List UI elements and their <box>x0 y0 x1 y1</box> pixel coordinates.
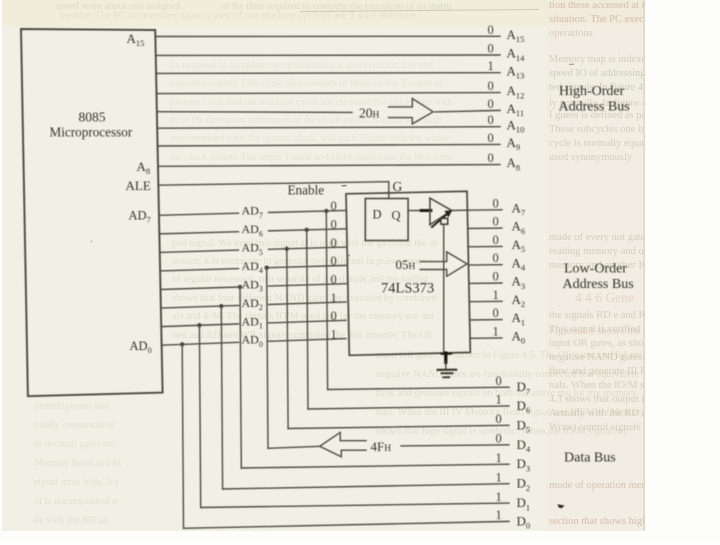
svg-text:1: 1 <box>496 471 502 485</box>
svg-text:ol is accomplished u: ol is accomplished u <box>34 496 117 507</box>
svg-text:0: 0 <box>493 215 499 229</box>
svg-text:1: 1 <box>331 327 337 341</box>
wire OE to ground <box>442 224 452 369</box>
svg-text:8085: 8085 <box>79 110 106 125</box>
wire A10, bit value 0 <box>157 113 524 134</box>
wire D7, bit value 0 <box>328 374 531 396</box>
wire AD7 from 8085 to latch, bit value 0 <box>159 199 346 220</box>
svg-text:0: 0 <box>331 254 337 268</box>
flow arrow 20H (high-order bus value) <box>389 99 434 124</box>
svg-text:0: 0 <box>496 412 502 426</box>
svg-text:used synonymously: used synonymously <box>549 152 633 163</box>
svg-text:0: 0 <box>488 97 494 111</box>
wire AD2 from 8085 to latch, bit value 1 <box>161 291 346 312</box>
svg-text:signal most high. It i: signal most high. It i <box>34 477 118 488</box>
junction node AD3 <box>238 285 242 289</box>
wire D1, bit value 1 <box>201 490 530 512</box>
svg-text:0: 0 <box>488 131 494 145</box>
bus label: Data Bus <box>564 451 616 466</box>
svg-text:in decimal gates mo: in decimal gates mo <box>34 439 116 450</box>
tri-state output buffer <box>430 198 452 225</box>
svg-text:1: 1 <box>331 291 337 305</box>
svg-text:device, it is necessary to gen: device, it is necessary to generate two … <box>172 256 426 267</box>
junction node AD5 <box>285 247 289 251</box>
output-enable control arrow <box>432 210 452 227</box>
svg-text:operations: operations <box>549 28 593 39</box>
wire AD2 vertical drop to data bus <box>221 306 222 489</box>
svg-text:als and 4-94. The signals IO/M: als and 4-94. The signals IO/M used and … <box>172 311 434 322</box>
svg-text:0: 0 <box>493 270 499 284</box>
svg-text:Q: Q <box>392 209 401 223</box>
flow arrow 05H (low-order bus value) <box>396 252 468 276</box>
wire AD0 vertical drop to data bus <box>182 344 183 528</box>
svg-text:1: 1 <box>496 490 502 504</box>
wire A15, bit value 0 <box>155 23 524 44</box>
svg-text:Memory Read and M: Memory Read and M <box>34 458 121 469</box>
svg-text:ntially conservative: ntially conservative <box>34 420 115 431</box>
wire A14, bit value 0 <box>156 42 525 63</box>
svg-text:0: 0 <box>488 79 494 93</box>
wire AD5 vertical drop to data bus <box>287 249 288 429</box>
svg-text:0: 0 <box>488 113 494 127</box>
node label Enable <box>288 183 325 198</box>
buffer output wire to latch edge <box>452 209 467 211</box>
svg-text:0: 0 <box>331 217 337 231</box>
svg-text:demultiplexed bus: demultiplexed bus <box>34 401 109 412</box>
svg-text:Address Bus: Address Bus <box>563 277 634 292</box>
wire AD4 from 8085 to latch, bit value 0 <box>160 254 346 275</box>
svg-text:1: 1 <box>496 508 502 522</box>
wire ALE to latch enable G <box>158 182 388 199</box>
svg-text:0: 0 <box>488 42 494 56</box>
8085 pin label ALE <box>126 178 151 193</box>
svg-text:D: D <box>373 208 382 222</box>
svg-text:1: 1 <box>493 324 499 338</box>
8085 pin label AD7 <box>129 209 151 225</box>
wire D6, bit value 1 <box>308 393 530 415</box>
wire AD1 vertical drop to data bus <box>199 325 200 507</box>
wire AD7 vertical drop to data bus <box>326 211 327 389</box>
svg-text:synchronized with the system c: synchronized with the system clock, and … <box>170 133 450 144</box>
wire AD0 from 8085 to latch, bit value 1 <box>162 327 346 348</box>
wire A4 latch output, bit value 0 <box>469 251 526 272</box>
junction node AD2 <box>219 304 223 308</box>
svg-text:1: 1 <box>496 393 502 407</box>
svg-text:ned and RD and WR signals comb: ned and RD and WR signals combined the t… <box>172 330 433 341</box>
paper edge <box>643 0 645 531</box>
wire A7 latch output, bit value 0 <box>467 196 525 217</box>
wire A11 (with 20H flow annotation), bit value 0 <box>157 97 524 120</box>
wire D2, bit value 1 <box>223 471 531 493</box>
junction node AD7 <box>324 209 328 213</box>
bus label: High-Order Address Bus <box>559 84 630 115</box>
svg-text:Enable: Enable <box>288 183 325 198</box>
svg-text:ne required to complete two in: ne required to complete two instructions… <box>170 60 433 71</box>
8085 pin label A15 <box>127 31 145 48</box>
svg-text:0: 0 <box>493 196 499 210</box>
wire AD6 from 8085 to latch, bit value 0 <box>159 217 346 238</box>
wire AD4 vertical drop to data bus <box>267 268 268 449</box>
wire A12, bit value 0 <box>156 79 524 100</box>
svg-text:G: G <box>393 179 403 194</box>
svg-text:member The PC incremented valu: member The PC incremented value is used … <box>60 11 417 22</box>
svg-text:Address Bus: Address Bus <box>559 100 630 115</box>
junction node AD4 <box>265 266 269 270</box>
wire AD3 from 8085 to latch, bit value 0 <box>161 272 346 293</box>
bus label: Low-Order Address Bus <box>563 262 634 292</box>
junction node AD0 <box>180 342 184 346</box>
flow arrow 4FH (data bus value) <box>320 432 366 456</box>
wire A6 latch output, bit value 0 <box>468 215 525 236</box>
svg-text:0: 0 <box>496 374 502 388</box>
svg-text:0: 0 <box>493 233 499 247</box>
wire D3, bit value 1 <box>241 451 530 473</box>
wire AD6 vertical drop to data bus <box>307 230 308 409</box>
decorative marks <box>91 10 575 257</box>
wire AD3 vertical drop to data bus <box>240 287 241 468</box>
svg-text:speed IO of addressing an: speed IO of addressing an <box>549 68 659 79</box>
wire A2 latch output, bit value 1 <box>469 288 525 309</box>
wire AD1 from 8085 to latch, bit value 0 <box>161 309 346 330</box>
svg-text:Write) control signals: Write) control signals <box>549 422 640 433</box>
wire D5, bit value 0 <box>288 412 530 434</box>
wire Q output to tri-state buffer <box>408 210 431 212</box>
8085 microprocessor U1 <box>21 29 163 396</box>
junction node AD1 <box>197 323 201 327</box>
ground <box>438 370 457 378</box>
svg-text:0: 0 <box>493 306 499 320</box>
svg-text:1: 1 <box>493 288 499 302</box>
8085 pin label AD0 <box>130 339 152 355</box>
wire A9, bit value 0 <box>158 131 521 152</box>
latch D-Q cell <box>365 199 408 241</box>
wire A8, bit value 0 <box>158 151 520 172</box>
output-enable pin square <box>441 218 448 224</box>
wire A13, bit value 1 <box>156 59 524 80</box>
svg-text:0: 0 <box>331 272 337 286</box>
svg-text:1: 1 <box>488 59 494 73</box>
svg-text:tion these accessed at the: tion these accessed at the <box>549 0 655 11</box>
svg-text:74LS373: 74LS373 <box>381 281 434 297</box>
svg-text:the clock period. The terms T-: the clock period. The terms T-state and … <box>170 152 452 163</box>
latch pin label G <box>393 179 403 194</box>
svg-text:4 4 6 Gene: 4 4 6 Gene <box>575 290 634 305</box>
wire D4 (with 4FH flow annotation), bit value 0 <box>268 432 531 454</box>
svg-text:ped signal. We need this signa: ped signal. We need this signal at is us… <box>172 238 437 249</box>
svg-text:Microprocessor: Microprocessor <box>50 125 133 140</box>
svg-text:0: 0 <box>331 199 337 213</box>
svg-text:Data Bus: Data Bus <box>564 451 616 466</box>
svg-text:1: 1 <box>496 451 502 465</box>
8085 pin label A8 <box>137 159 151 176</box>
wire AD5 from 8085 to latch, bit value 0 <box>160 236 346 257</box>
cursor mark <box>557 504 564 508</box>
wire A1 latch output, bit value 0 <box>470 306 526 327</box>
svg-text:executed copied. This cycle al: executed copied. This cycle also consist… <box>170 78 444 89</box>
wire A5 latch output, bit value 0 <box>468 233 525 254</box>
svg-text:0: 0 <box>496 432 502 446</box>
svg-text:Low-Order: Low-Order <box>564 262 627 277</box>
svg-text:Actually with the RD and: Actually with the RD and <box>549 408 658 419</box>
svg-text:de with the RD an: de with the RD an <box>34 515 108 526</box>
svg-text:0: 0 <box>331 236 337 250</box>
svg-text:High-Order: High-Order <box>559 84 625 99</box>
svg-text:ALE: ALE <box>126 178 151 193</box>
wire A0 latch output, bit value 1 <box>470 324 525 345</box>
junction node AD6 <box>305 228 309 232</box>
svg-text:0: 0 <box>488 23 494 37</box>
wire D0, bit value 1 <box>184 508 531 530</box>
svg-text:0: 0 <box>493 251 499 265</box>
svg-text:0: 0 <box>331 309 337 323</box>
74LS373 latch U2 <box>346 191 470 355</box>
svg-text:0: 0 <box>488 151 494 165</box>
wire A3 latch output, bit value 0 <box>469 270 525 291</box>
